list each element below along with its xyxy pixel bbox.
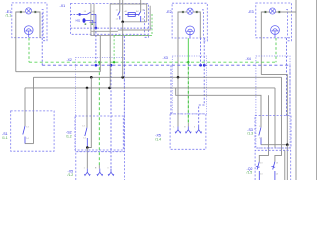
wire E2 x2 drop	[198, 12, 200, 38]
X2 node b	[110, 64, 113, 67]
PE wire from E3 socket (green dashed)	[275, 38, 277, 62]
svg-text:-X4: -X4	[246, 57, 251, 61]
plug lines right	[86, 19, 93, 21]
lamp P3 in E3	[269, 8, 275, 14]
wire E1 x1 drop	[16, 12, 20, 72]
cable region R1 dotted	[256, 56, 290, 148]
cable duct dotted left	[76, 58, 125, 152]
X2 node a	[95, 64, 98, 67]
switch box S1	[11, 111, 54, 151]
connector box X5 lower-left	[76, 152, 125, 180]
node S3 out	[286, 143, 289, 146]
wire drop L3 to S2	[86, 88, 88, 128]
X2 feed from E1 (dashed drop)	[41, 13, 43, 65]
green junction node 1	[98, 61, 100, 63]
lamp box E3	[256, 3, 292, 41]
connector box X5 middle	[170, 114, 206, 149]
Q2 passthrough wire	[284, 150, 286, 180]
fork mid 3	[196, 127, 202, 133]
wire S3 bottom to node	[261, 144, 287, 146]
switch box S3	[255, 116, 291, 148]
wire E3 x2 long right drop	[280, 11, 296, 13]
svg-text:/1.2: /1.2	[68, 173, 74, 177]
lamp box E1	[12, 3, 47, 41]
dashed drop E2 to X3 node b	[203, 38, 205, 65]
wire E2 x1 long drop	[178, 12, 182, 77]
switch S3	[259, 127, 261, 144]
wire E3 x1 drop	[261, 12, 264, 75]
svg-text:-X3: -X3	[163, 56, 168, 60]
grey chimney left pair	[90, 4, 92, 32]
wire E2 drop to fork1 mid	[177, 77, 179, 126]
socket device in E1	[24, 26, 33, 38]
wire X1 drop to L2 node	[122, 22, 124, 78]
dashed drop X3 node to X5mid fork3	[199, 65, 205, 126]
dashed drop X1 to X2 node	[95, 28, 97, 65]
wire L3 right drop through S3	[274, 88, 276, 148]
green dashed riser to X1	[113, 36, 115, 63]
green drop to X5 left	[98, 62, 100, 165]
wire drop L2 to S2 bottom	[87, 77, 91, 147]
wire L4 row	[176, 88, 261, 127]
green dashed PE inside X1	[114, 14, 152, 36]
dashed drop E2 to X3 node a	[200, 38, 202, 65]
dashed drop E3 to X4 area	[286, 38, 288, 116]
wire to top edge a	[119, 0, 121, 12]
wire X1 G1 drop to L3	[109, 36, 111, 88]
PE bus (green dashed horizontal)	[29, 61, 276, 63]
plug ellipse	[83, 18, 86, 23]
wire lamp stubs E2	[184, 11, 187, 13]
node L3-S2	[86, 87, 89, 90]
node L2-E2	[177, 76, 180, 79]
svg-text:/1.5: /1.5	[247, 171, 253, 175]
pushbutton S1	[23, 126, 25, 144]
svg-text:/1.3: /1.3	[247, 132, 253, 136]
terminal x2 of E2	[196, 11, 198, 13]
wire S2 node to fork	[86, 148, 88, 169]
node S2 bottom	[86, 146, 89, 149]
wire L1 row	[16, 71, 101, 73]
wire X1 drop to L1	[99, 36, 101, 72]
plug pin entry dashed	[71, 13, 79, 15]
lamp box E2	[172, 3, 207, 41]
green-grey stub to fork2	[98, 165, 100, 169]
contact K1 aux in G1	[118, 12, 120, 20]
node L3-X1	[108, 87, 111, 90]
wire lamp stubs E1	[22, 11, 25, 13]
wire L2 right drop to Q2	[281, 77, 283, 150]
contact S in X1	[81, 12, 96, 28]
dashed blue row in X1	[71, 27, 95, 29]
window frame right border	[316, 0, 318, 180]
node L2-S2	[90, 76, 93, 79]
blue node dot in X1	[95, 27, 98, 30]
svg-text:-E2: -E2	[166, 10, 172, 14]
wire E1 x2 internal drop	[36, 12, 40, 38]
svg-text:/1.2: /1.2	[66, 135, 72, 139]
Q2 jog wire 2	[275, 150, 282, 161]
lamp P2 in E2	[187, 8, 193, 14]
PE wire from E2 socket (green)	[187, 38, 189, 62]
green stub to fork2 mid	[187, 123, 189, 127]
plug terminal green marks	[85, 24, 87, 25]
switch box S2	[75, 116, 123, 150]
relay coil K1	[125, 13, 139, 17]
junction dot in X1	[121, 21, 124, 24]
terminal bus X2 (blue dashed)	[42, 64, 290, 66]
terminal x1 of E2	[182, 11, 184, 13]
contactor box Q2	[255, 150, 291, 180]
svg-text:/1.1: /1.1	[2, 136, 8, 140]
Q2 jog wire 1	[259, 150, 268, 161]
wire E3 cross row	[261, 75, 287, 145]
connector box X1	[71, 4, 149, 38]
terminal x2 of E3	[278, 11, 280, 13]
wire column to Q2 contact1	[268, 95, 270, 150]
Q2 contact 2	[272, 162, 276, 180]
wire L2 row	[34, 76, 282, 78]
socket device in E3	[271, 26, 280, 38]
plug pin dot	[78, 13, 81, 16]
lamp P1 in E1	[26, 8, 32, 14]
svg-text:/1.4: /1.4	[155, 138, 161, 142]
X3 node a	[199, 64, 202, 67]
fork mid 2	[185, 127, 191, 133]
dashed drop X3 to X5mid box	[170, 65, 172, 114]
dashed X4 corner down	[289, 65, 291, 115]
socket device in E2	[186, 26, 195, 38]
grey card box G1	[91, 4, 150, 36]
dashed drop X1 to X5 left box	[123, 36, 125, 152]
fork contact 2	[97, 169, 103, 176]
wire lamp stubs E3	[267, 11, 270, 13]
wire S1 bottom U	[25, 143, 34, 145]
wire L3 left drop to S1	[24, 88, 26, 126]
node L2-X1	[121, 76, 124, 79]
green junction node 2	[113, 61, 115, 63]
svg-text:/1.1: /1.1	[6, 14, 12, 18]
X3 node b	[203, 64, 206, 67]
svg-text:-E3: -E3	[248, 10, 254, 14]
Q2 contact 1	[256, 162, 260, 180]
fork mid 1	[175, 127, 181, 133]
terminal x1 of E3	[264, 11, 266, 13]
green junction node 3	[187, 61, 189, 63]
fork contact 3	[108, 169, 114, 176]
wire to top edge b	[122, 0, 124, 22]
wire L3 row	[25, 87, 275, 89]
contact K1.2	[138, 12, 140, 22]
pushbutton S2	[85, 128, 88, 148]
dashed drop X2 node b to X5 fork3	[110, 65, 112, 168]
terminal x1 of E1	[20, 11, 22, 13]
wire L2 left drop to S1	[33, 77, 35, 143]
svg-text:-X1: -X1	[60, 4, 66, 8]
fork contact 1	[84, 169, 90, 176]
svg-text:HS1: HS1	[76, 20, 81, 23]
terminal x2 of E1	[34, 11, 36, 13]
green drop to X5 mid	[187, 62, 189, 123]
svg-text:-X2: -X2	[67, 58, 72, 62]
wire node down	[286, 145, 288, 180]
PE wire from E1 socket (green dashed)	[28, 38, 30, 62]
cable duct dotted middle	[172, 56, 206, 114]
